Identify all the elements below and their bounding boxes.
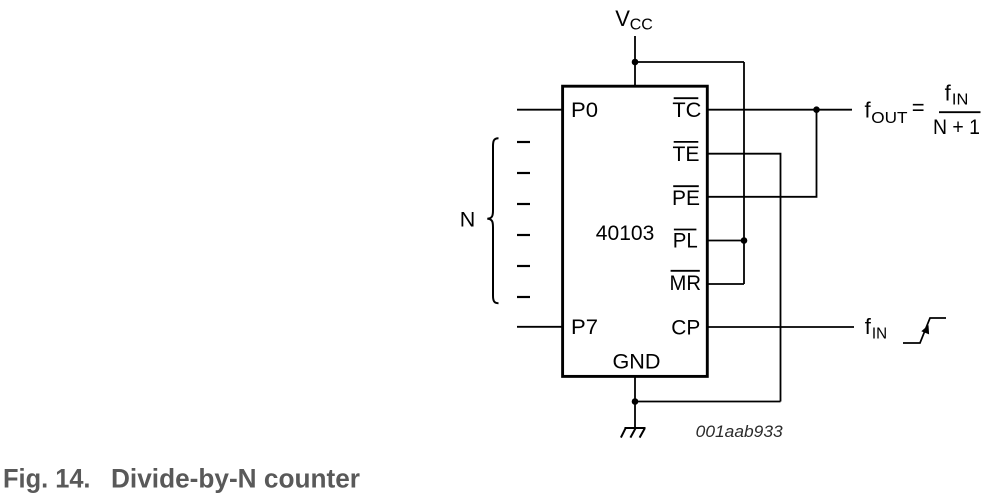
figure caption xyxy=(3,464,360,494)
svg-text:OUT: OUT xyxy=(871,110,907,127)
pin MR overbar xyxy=(671,270,700,272)
junction GND node xyxy=(632,398,639,405)
wire GND horizontal to TE rail xyxy=(635,401,781,403)
svg-text:PE: PE xyxy=(672,186,700,210)
wire P7 input stub xyxy=(517,326,562,328)
power VCC label xyxy=(615,6,653,34)
junction TC/PE node xyxy=(813,106,820,113)
input dash P2 xyxy=(517,172,530,174)
input dash P3 xyxy=(517,203,530,205)
svg-text:IN: IN xyxy=(872,325,887,342)
wire P0 input stub xyxy=(517,109,562,111)
wire TC output xyxy=(707,109,852,111)
svg-text:f: f xyxy=(865,314,872,339)
node fIN label xyxy=(865,314,887,342)
pin PL overbar xyxy=(674,229,697,231)
svg-text:TE: TE xyxy=(673,142,700,166)
wire vertical rail VCC to MR xyxy=(743,62,745,284)
svg-text:40103: 40103 xyxy=(596,221,655,245)
ground symbol xyxy=(621,428,646,438)
svg-text:P0: P0 xyxy=(571,98,598,122)
junction PL/VCC rail xyxy=(741,237,748,244)
junction VCC node xyxy=(632,59,639,66)
wire PL stub to VCC rail xyxy=(707,240,744,242)
svg-text:IN: IN xyxy=(952,92,968,109)
input dash P6 xyxy=(517,296,530,298)
input dash P4 xyxy=(517,234,530,236)
clock edge symbol xyxy=(903,318,946,343)
wire VCC horizontal to PL/MR rail xyxy=(635,61,744,63)
svg-text:P7: P7 xyxy=(571,315,598,339)
pin PE overbar xyxy=(673,185,699,187)
svg-text:TC: TC xyxy=(672,98,701,122)
svg-text:GND: GND xyxy=(613,350,661,374)
svg-text:f: f xyxy=(945,81,952,106)
wire MR stub to VCC rail xyxy=(707,283,744,285)
wire PE up to TC output xyxy=(707,110,817,197)
svg-text:N: N xyxy=(460,208,476,232)
wire CP output to fIN xyxy=(707,326,854,328)
pin TC overbar xyxy=(674,97,699,99)
svg-text:001aab933: 001aab933 xyxy=(696,423,784,441)
svg-text:N + 1: N + 1 xyxy=(933,116,980,139)
input dash P1 xyxy=(517,141,530,143)
svg-text:Fig. 14.: Fig. 14. xyxy=(3,464,91,494)
wire GND vertical xyxy=(634,377,636,428)
svg-text:CP: CP xyxy=(671,316,700,340)
svg-text:=: = xyxy=(912,95,925,120)
pin TE overbar xyxy=(674,141,699,143)
wire TE to ground rail xyxy=(707,154,781,402)
svg-text:MR: MR xyxy=(670,271,702,295)
svg-text:CC: CC xyxy=(630,17,653,34)
svg-text:PL: PL xyxy=(673,228,698,252)
IC U1 40103 body xyxy=(563,86,708,376)
input dash P5 xyxy=(517,265,530,267)
svg-text:Divide-by-N counter: Divide-by-N counter xyxy=(111,464,360,494)
brace for N inputs xyxy=(487,138,498,303)
wire VCC vertical to box top xyxy=(634,36,636,86)
svg-text:V: V xyxy=(615,6,630,31)
node fOUT formula xyxy=(865,81,981,140)
